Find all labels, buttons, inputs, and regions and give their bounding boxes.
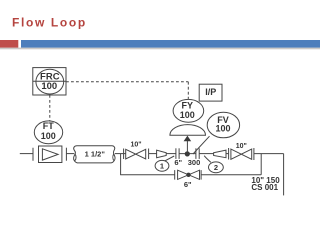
leader line callout 2 xyxy=(204,156,211,163)
actuator stem arrowhead xyxy=(184,136,192,142)
instrument FV100 circle xyxy=(207,112,239,138)
svg-text:100: 100 xyxy=(215,124,230,134)
svg-text:1 1/2": 1 1/2" xyxy=(85,149,106,158)
svg-text:FT: FT xyxy=(43,121,54,131)
flange left of 10in gate valve xyxy=(123,149,125,160)
expander 6x10 xyxy=(214,150,226,158)
svg-text:100: 100 xyxy=(41,81,57,92)
bypass globe valve bowtie xyxy=(178,170,200,179)
instrument FRC100 midline xyxy=(33,80,66,82)
reducer 10x6 xyxy=(157,150,167,158)
control valve inlet flange pair xyxy=(175,148,177,159)
gate valve 10in right xyxy=(231,149,252,159)
svg-text:100: 100 xyxy=(41,131,56,141)
callout circle 1 xyxy=(155,160,169,171)
svg-text:6": 6" xyxy=(174,158,182,167)
pipe line to outlet corner xyxy=(254,153,284,155)
pipe line reducer to control valve xyxy=(166,153,176,155)
pipe line spool to 10in valve xyxy=(115,153,126,155)
pipe line expander to flange xyxy=(226,153,228,155)
instrument FT100 circle xyxy=(34,121,62,144)
svg-text:2: 2 xyxy=(214,163,218,172)
converter I/P box xyxy=(199,84,222,101)
svg-text:1: 1 xyxy=(160,162,164,171)
flange at flow element inlet xyxy=(32,148,34,161)
flange left of right 10in gate valve xyxy=(228,148,230,160)
svg-text:I/P: I/P xyxy=(205,87,216,97)
signal line down to FY (dashed) xyxy=(187,82,189,99)
pipe inlet line xyxy=(20,153,33,155)
pipe outlet drop line xyxy=(283,154,285,196)
header bar blue segment xyxy=(21,40,320,48)
header bar red segment xyxy=(0,40,18,48)
svg-text:300: 300 xyxy=(188,158,201,167)
svg-text:6": 6" xyxy=(184,180,192,189)
bypass valve right flange xyxy=(200,170,202,180)
svg-text:10": 10" xyxy=(236,143,247,150)
instrument FRC100 square xyxy=(33,68,66,95)
control valve outlet flange pair xyxy=(195,148,197,159)
header bar shadow xyxy=(0,48,320,50)
svg-text:10": 10" xyxy=(130,142,141,149)
actuator stem arrow line xyxy=(186,141,188,153)
svg-text:100: 100 xyxy=(180,110,195,120)
pipe spool 1 1/2in body xyxy=(74,146,116,163)
bypass globe valve ball xyxy=(186,173,190,177)
bypass tee drop line xyxy=(120,154,122,175)
pipe line valve to reducer xyxy=(149,153,157,155)
signal line FRC to FT (dashed) xyxy=(49,95,51,121)
flange right of right 10in gate valve xyxy=(253,148,255,160)
bypass pipe line right xyxy=(201,174,261,176)
pipe line flange to spool xyxy=(67,153,75,155)
bypass return riser xyxy=(260,154,262,175)
leader line FV100 to valve xyxy=(193,136,210,154)
control valve ball xyxy=(185,151,190,156)
flow element triangle xyxy=(42,149,58,160)
gate valve 10in left xyxy=(126,149,146,159)
pipe line control valve to expander xyxy=(199,153,213,155)
leader line callout 1 xyxy=(165,156,174,161)
bypass pipe line xyxy=(120,174,174,176)
flange right of 10in gate valve xyxy=(148,149,150,160)
svg-text:CS 001: CS 001 xyxy=(251,183,278,192)
svg-text:Flow Loop: Flow Loop xyxy=(12,15,87,29)
control valve body line xyxy=(179,153,196,155)
actuator diaphragm dome xyxy=(170,125,206,136)
instrument FRC100 circle xyxy=(36,69,64,94)
instrument FY100 circle xyxy=(173,99,204,122)
flow element square xyxy=(39,146,62,163)
signal line FRC to FY horizontal (dashed) xyxy=(66,81,188,83)
flange at flow element outlet xyxy=(65,148,67,161)
callout circle 2 xyxy=(209,162,224,173)
bypass valve left flange xyxy=(174,170,176,180)
